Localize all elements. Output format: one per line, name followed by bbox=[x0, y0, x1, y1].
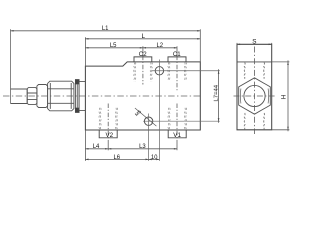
body left face extension down bbox=[84, 130, 86, 161]
M5 vertical centerline to dim line bbox=[148, 114, 150, 161]
dimension H extension lines bbox=[272, 62, 290, 130]
end view lower thread hidden lines bbox=[243, 113, 246, 130]
circle vertical centerline / extension to 10-dim bbox=[158, 60, 160, 161]
seal washer black ends bbox=[75, 80, 79, 113]
svg-text:L1: L1 bbox=[102, 25, 109, 32]
port boss C2 bbox=[134, 57, 152, 62]
svg-text:L7=44: L7=44 bbox=[214, 85, 220, 101]
adjusting screw stem bbox=[11, 89, 28, 104]
port C1 thread hidden lines bbox=[167, 62, 170, 80]
M5 horizontal extension to L7 bbox=[143, 120, 220, 122]
svg-text:L5: L5 bbox=[110, 42, 117, 49]
seal washer bbox=[75, 80, 79, 113]
svg-text:L: L bbox=[141, 33, 145, 40]
port boss C1 bbox=[168, 57, 186, 62]
screw tip face / L1 extension line bbox=[10, 29, 12, 103]
svg-text:M5: M5 bbox=[134, 109, 143, 118]
valve body outline bbox=[85, 62, 200, 130]
circle horizontal extension line to L7 bbox=[152, 70, 220, 72]
port C2 centerline bbox=[142, 56, 144, 85]
port V1 box bbox=[168, 130, 186, 138]
port V2 centerline bbox=[107, 104, 109, 141]
svg-text:V2: V2 bbox=[106, 132, 114, 139]
M5 gauge port circle bbox=[144, 117, 152, 125]
end view bore circle bbox=[244, 85, 265, 106]
right end view outer rectangle bbox=[237, 44, 272, 130]
dimension L4 / L3 bbox=[85, 148, 177, 150]
dimension L5 / L2 bbox=[85, 47, 177, 49]
body left face extension up bbox=[84, 37, 86, 66]
dimension H bbox=[287, 60, 289, 131]
svg-text:L6: L6 bbox=[114, 154, 121, 161]
svg-text:L3: L3 bbox=[139, 143, 146, 150]
port V2 box bbox=[99, 130, 117, 138]
main horizontal centerline bbox=[3, 95, 201, 97]
C1 extension tick bbox=[176, 46, 178, 57]
svg-text:C2: C2 bbox=[139, 51, 147, 58]
port V2 thread hidden lines bbox=[98, 108, 101, 130]
dimension L6 / 10 bbox=[85, 158, 159, 160]
dimension S bbox=[237, 43, 272, 44]
end view horizontal centerline bbox=[234, 95, 276, 97]
svg-text:C1: C1 bbox=[173, 51, 181, 58]
svg-text:L4: L4 bbox=[93, 143, 100, 150]
port C1 centerline bbox=[176, 56, 178, 91]
end view vertical centerline bbox=[254, 47, 256, 135]
dimension L1 bbox=[11, 30, 201, 32]
svg-text:L2: L2 bbox=[157, 42, 164, 49]
port V1 thread hidden lines bbox=[167, 108, 170, 130]
M5 leader line bbox=[135, 108, 157, 126]
port C2 thread hidden lines bbox=[133, 62, 136, 81]
small hex on screw bbox=[27, 88, 37, 105]
big hex nut bbox=[48, 81, 74, 111]
threaded neck bbox=[79, 81, 85, 110]
svg-text:V1: V1 bbox=[173, 132, 181, 139]
svg-text:H: H bbox=[281, 94, 288, 99]
end view top face line bbox=[237, 61, 272, 63]
end view nut chamfer arcs bbox=[240, 89, 268, 104]
port V1 centerline bbox=[176, 104, 178, 141]
body right face extension up bbox=[199, 29, 201, 62]
end view upper thread hidden lines bbox=[243, 62, 246, 79]
svg-text:S: S bbox=[252, 38, 256, 45]
V1 extension tick bbox=[176, 141, 178, 151]
dimension L bbox=[85, 38, 200, 40]
end view hex nut bbox=[239, 78, 271, 114]
V2 extension tick bbox=[107, 141, 109, 151]
C2 extension tick bbox=[142, 46, 144, 57]
svg-text:10: 10 bbox=[151, 154, 158, 161]
gauge hole circle bbox=[155, 67, 163, 75]
locknut bbox=[37, 85, 48, 108]
dimension L7=44 bbox=[218, 69, 220, 122]
